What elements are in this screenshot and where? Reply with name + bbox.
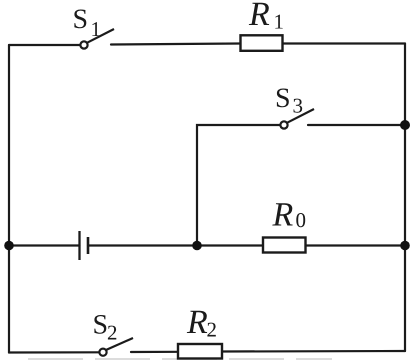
label S1 bbox=[74, 10, 86, 29]
battery cell long plate bbox=[78, 231, 80, 260]
switch S2 bbox=[99, 338, 133, 356]
wire middle segment (battery to R0) bbox=[88, 244, 263, 246]
scan shadow line below bottom wire bbox=[28, 358, 332, 360]
label R1 bbox=[249, 3, 269, 25]
wire top-right segment (R1 to right corner) bbox=[283, 42, 406, 44]
wire center vertical branch with S3 feed bbox=[197, 125, 281, 246]
label S3 bbox=[277, 89, 289, 108]
resistor R2 bbox=[178, 344, 222, 359]
wire middle-right segment (R0 to right node) bbox=[306, 244, 406, 246]
node left-middle junction bbox=[4, 241, 14, 251]
wire top segment (S1 to R1) bbox=[111, 44, 241, 45]
battery cell short plate bbox=[87, 237, 90, 254]
switch S3 bbox=[280, 109, 314, 129]
resistor R1 bbox=[241, 35, 283, 51]
switch S1 bbox=[80, 29, 114, 49]
label S2 bbox=[94, 315, 106, 334]
wire left vertical bbox=[8, 45, 10, 353]
wire right vertical bbox=[404, 44, 406, 352]
wire bottom-left segment (left corner to switch S2) bbox=[9, 351, 100, 353]
node right S3 junction bbox=[400, 120, 410, 130]
wire bottom segment (S2 to R2) bbox=[131, 351, 178, 353]
label R0 bbox=[272, 203, 292, 225]
node center junction bbox=[192, 241, 202, 251]
label R2 bbox=[187, 311, 207, 333]
wire bottom-right segment (R2 to right corner) bbox=[222, 350, 405, 353]
wire middle-left segment (left node to battery) bbox=[9, 244, 80, 246]
node right-middle junction bbox=[400, 241, 410, 251]
resistor R0 bbox=[263, 238, 306, 253]
wire S3 branch right segment bbox=[308, 124, 405, 126]
wire top-left segment (left corner to switch S1) bbox=[9, 44, 81, 46]
